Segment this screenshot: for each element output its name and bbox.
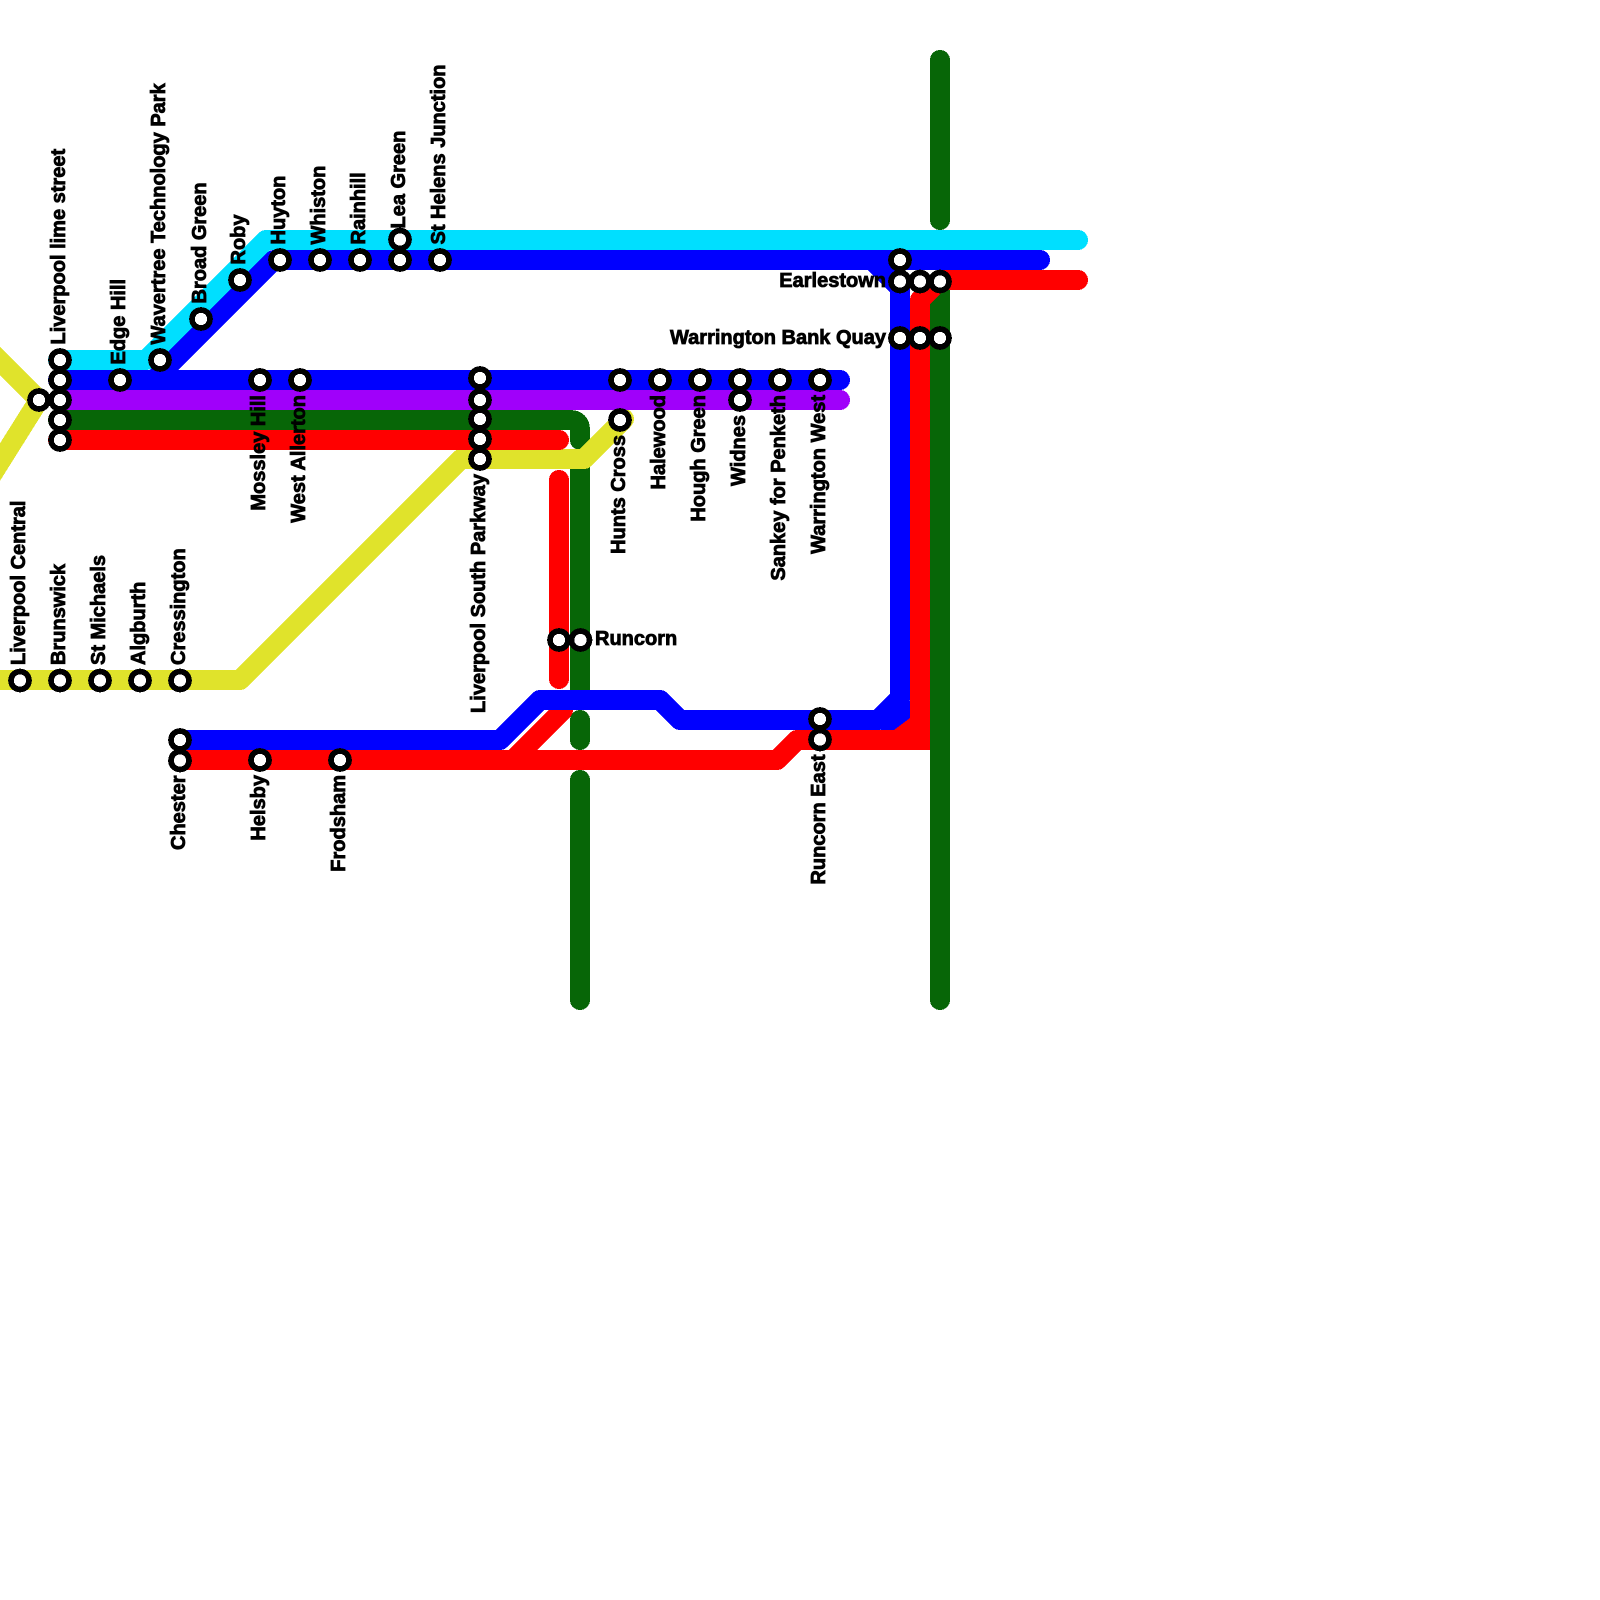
station Warrington Bank Quay circles: [891, 329, 909, 347]
station Widnes circles: [731, 371, 749, 389]
wire red Chester line with vertical at x=920: [180, 280, 1078, 760]
svg-text:Roby: Roby: [228, 214, 250, 265]
station Helsby: [251, 751, 269, 769]
station Rainhill: [351, 251, 369, 269]
station Cressington: [171, 672, 189, 690]
station Algburth: [131, 672, 149, 690]
station Edge Hill: [111, 371, 129, 389]
station Roby: [231, 271, 249, 289]
wire green vertical line x=940 lower segment: [930, 280, 950, 1000]
wire blue main horizontal y=380: [58, 370, 840, 390]
wire green horizontal line y=420 with bend down at x=580: [58, 420, 580, 440]
svg-text:Mossley Hill: Mossley Hill: [248, 395, 270, 511]
svg-text:Warrington Bank Quay: Warrington Bank Quay: [670, 327, 887, 349]
wire red vertical to Runcorn: [549, 480, 569, 679]
wire purple line y=400: [58, 390, 840, 410]
station yellow junction vertex: [30, 391, 48, 409]
svg-text:Widnes: Widnes: [728, 415, 750, 486]
wire green vertical x=580 capsule between blue and red: [570, 720, 590, 740]
wire blue diagonal branch and top horizontal y=260: [154, 260, 1040, 380]
wire red diagonal under blue: [515, 710, 563, 758]
station Chester circles: [171, 731, 189, 749]
svg-text:Liverpool Central: Liverpool Central: [8, 501, 30, 665]
svg-text:Algburth: Algburth: [128, 582, 150, 665]
svg-text:Frodsham: Frodsham: [328, 775, 350, 872]
svg-text:Edge Hill: Edge Hill: [108, 279, 130, 365]
station St Helens Junction: [431, 251, 449, 269]
wire red corner fill at Warrington junction: [896, 716, 930, 750]
svg-text:Sankey for Penketh: Sankey for Penketh: [768, 395, 790, 581]
svg-text:Hunts Cross: Hunts Cross: [608, 435, 630, 554]
station West Allerton: [291, 371, 309, 389]
svg-text:Warrington West: Warrington West: [808, 395, 830, 554]
wire red middle line y=440: [58, 430, 559, 450]
station Huyton: [271, 251, 289, 269]
svg-text:Rainhill: Rainhill: [348, 172, 370, 244]
station Halewood: [651, 371, 669, 389]
station Wavertree Technology Park: [151, 351, 169, 369]
wire yellow line Liverpool Central to Hunts Cross: [0, 419, 624, 680]
svg-text:Runcorn: Runcorn: [595, 628, 677, 650]
station Runcorn circles: [550, 631, 568, 649]
svg-text:Huyton: Huyton: [268, 176, 290, 245]
station St Michaels: [91, 672, 109, 690]
svg-text:Halewood: Halewood: [648, 395, 670, 489]
station Hunts Cross circles: [611, 371, 629, 389]
wire green vertical x=580 bottom segment: [570, 780, 590, 1000]
svg-text:Runcorn East: Runcorn East: [808, 754, 830, 884]
station Sankey for Penketh: [771, 371, 789, 389]
station Broad Green: [192, 310, 210, 328]
wire blue Chester line with vertical at x=900: [180, 260, 900, 740]
svg-text:Whiston: Whiston: [308, 166, 330, 245]
station Liverpool South Parkway circles: [471, 369, 489, 387]
wire blue corner fill at Warrington junction: [880, 700, 910, 730]
svg-text:Brunswick: Brunswick: [48, 563, 70, 665]
svg-text:Chester: Chester: [168, 775, 190, 850]
wire green vertical x=580 segment between yellow and blue: [570, 460, 590, 700]
svg-text:West Allerton: West Allerton: [288, 395, 310, 523]
station Frodsham: [331, 751, 349, 769]
station Hough Green: [691, 371, 709, 389]
svg-text:Helsby: Helsby: [248, 774, 270, 840]
wire green vertical line x=940 upper segment: [930, 60, 950, 220]
svg-text:Lea Green: Lea Green: [388, 131, 410, 229]
station Mossley Hill: [251, 371, 269, 389]
svg-text:Liverpool lime street: Liverpool lime street: [48, 149, 70, 345]
svg-text:Liverpool South Parkway: Liverpool South Parkway: [468, 473, 490, 713]
station Earlestown circles: [891, 251, 909, 269]
wire cyan line Lime Street to St Helens: [58, 240, 1078, 360]
station Liverpool lime street circles: [51, 351, 69, 369]
station Warrington West: [811, 371, 829, 389]
svg-text:Wavertree Technology Park: Wavertree Technology Park: [148, 82, 170, 344]
svg-text:Cressington: Cressington: [168, 548, 190, 665]
station Brunswick: [51, 672, 69, 690]
svg-text:Hough Green: Hough Green: [688, 395, 710, 522]
station Runcorn East circles: [811, 710, 829, 728]
svg-text:St Michaels: St Michaels: [88, 555, 110, 665]
station Liverpool Central: [11, 672, 29, 690]
station Lea Green circles: [391, 231, 409, 249]
svg-text:Broad Green: Broad Green: [189, 182, 211, 303]
wire yellow X branch at left edge: [0, 351, 39, 478]
station Whiston: [311, 251, 329, 269]
svg-text:Earlestown: Earlestown: [779, 270, 886, 292]
svg-text:St Helens Junction: St Helens Junction: [428, 64, 450, 244]
